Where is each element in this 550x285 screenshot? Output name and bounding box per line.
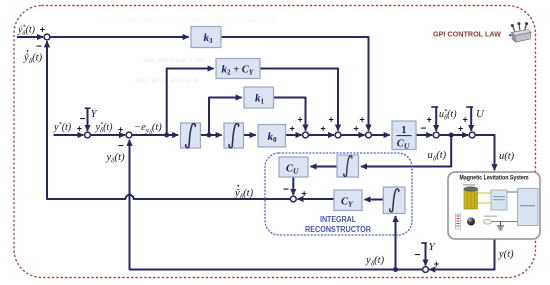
box right face	[515, 32, 531, 42]
svg-text:+: +	[463, 115, 468, 125]
tick: u*d source top	[431, 106, 438, 108]
ground symbol	[500, 222, 502, 227]
block CY	[334, 190, 362, 211]
svg-text:+: +	[298, 115, 303, 125]
wire: A3 to 1/CU block	[372, 134, 390, 136]
wire current control to controller	[507, 191, 518, 193]
svg-text:INTEGRAL: INTEGRAL	[320, 215, 356, 224]
junction node before I2	[207, 133, 212, 138]
gain block k2+CY	[216, 59, 260, 79]
svg-text:−: −	[80, 114, 86, 125]
gain block k3	[191, 27, 221, 48]
svg-text:RECONSTRUCTOR: RECONSTRUCTOR	[305, 225, 371, 234]
wire: Y down into YS	[425, 243, 427, 265]
svg-text:y*(t): y*(t)	[53, 121, 72, 133]
svg-text:+: +	[290, 124, 295, 134]
wire: bottom bus from YS left then up into S2	[130, 140, 423, 270]
summing node A3	[366, 132, 372, 138]
gain block k1	[244, 87, 274, 108]
wire: C2 right and down into plant	[476, 135, 495, 170]
integral sign I1	[186, 124, 196, 148]
wire: u_d tap down and left into top reconstructor integrator	[361, 135, 451, 167]
svg-text:+: +	[360, 115, 365, 125]
svg-text:+: +	[458, 124, 463, 134]
svg-text:+: +	[321, 124, 326, 134]
wire: bottom reconstructor integrator to CY	[365, 199, 384, 201]
svg-text:y*δ(t): y*δ(t)	[95, 121, 114, 135]
wire: u*d down into C1	[435, 107, 437, 131]
summing node YS (bottom)	[423, 267, 429, 273]
wire: y*(t) input into S1	[54, 134, 84, 136]
box front face	[512, 33, 516, 43]
svg-text:+: +	[427, 115, 432, 125]
wire: reference input into S0	[17, 36, 43, 38]
electromagnet coil body	[464, 189, 478, 209]
svg-text:−: −	[415, 250, 421, 261]
current control box	[491, 190, 507, 210]
svg-text:1: 1	[401, 125, 406, 136]
svg-text:ẏ*δ(t): ẏ*δ(t)	[17, 24, 36, 38]
tick: U source top	[466, 106, 473, 108]
wire: C1 to C2	[440, 134, 469, 136]
electromagnet label	[463, 184, 475, 186]
wire: k2+CY output right and down into A2	[260, 69, 338, 131]
wire: S0 to k3	[50, 36, 188, 38]
svg-text:−: −	[283, 185, 289, 196]
integrator block IB (reconstructor bottom)	[383, 187, 405, 214]
svg-text:+: +	[40, 25, 45, 35]
tick: Y source top	[85, 107, 91, 109]
position sensor strip	[456, 214, 461, 229]
wire: y_d tap up into bottom reconstructor integrator	[395, 216, 397, 270]
wire: plant output down, left into bottom summing node YS	[429, 239, 494, 270]
magnetic levitation system plant box	[448, 172, 540, 239]
svg-text:−: −	[118, 141, 124, 152]
summing node C2	[469, 132, 475, 138]
dot above hat (top-left)	[27, 50, 29, 52]
wire: S1 to S2	[91, 134, 125, 136]
tick: Y source bottom	[421, 242, 427, 244]
summing node C1	[433, 132, 439, 138]
levitating ball	[467, 218, 475, 226]
detector wire to controller	[492, 221, 518, 223]
svg-text:−: −	[36, 42, 42, 53]
wire: CY output into node R	[297, 198, 334, 200]
photo detector	[483, 219, 491, 224]
integral sign I2	[229, 124, 239, 148]
integral sign IB	[390, 189, 399, 212]
gain block 1/CU	[392, 121, 416, 150]
wire: A1 to A2	[309, 134, 334, 136]
integral sign IT	[344, 156, 352, 176]
controller box	[518, 189, 539, 226]
svg-text:y(t): y(t)	[498, 249, 514, 260]
wire: k1 output right and down into A1	[274, 98, 306, 131]
box top face	[512, 30, 532, 36]
wire: tap up to k1 block	[209, 98, 242, 136]
svg-text:+: +	[302, 189, 307, 199]
integrator block I2	[224, 123, 244, 148]
integral reconstructor dotted box	[265, 153, 412, 235]
summing node S1	[85, 132, 91, 138]
junction node y_d on bottom bus	[393, 267, 398, 272]
gain block k0	[258, 125, 286, 148]
dot above hat (mid)	[237, 185, 239, 187]
svg-text:ww wwmnw + vw: ww wwmnw + vw	[143, 58, 206, 65]
svg-text:+: +	[77, 124, 82, 134]
integrator block I1	[181, 123, 201, 148]
summing node S0	[44, 34, 50, 40]
svg-text:Magnetic Levitation System: Magnetic Levitation System	[460, 175, 529, 182]
wire: CU down into node R	[292, 177, 294, 195]
svg-text:GPI CONTROL LAW: GPI CONTROL LAW	[433, 29, 501, 38]
summing node R (reconstructor)	[290, 196, 296, 202]
wire: A2 to A3	[341, 134, 364, 136]
svg-text:−: −	[421, 124, 427, 135]
svg-text:ŷδ(t): ŷδ(t)	[234, 188, 254, 201]
wire: I1 to I2	[201, 134, 222, 136]
wire: reconstructed velocity feedback, left along y=199 with hop, up into S0	[47, 41, 290, 199]
wire: U down into C2	[470, 107, 472, 131]
lever sticks	[513, 24, 526, 31]
coil wires to current control	[478, 193, 492, 203]
wire: k0 to summing node A1	[286, 134, 302, 136]
svg-text:ŷδ(t): ŷδ(t)	[23, 53, 43, 66]
summing node S2	[126, 132, 132, 138]
svg-text:u(t): u(t)	[499, 151, 515, 162]
wire: tap at node up to k2+CY block	[167, 69, 214, 136]
svg-text:u*δ(t): u*δ(t)	[439, 108, 457, 122]
svg-text:yδ(t): yδ(t)	[106, 152, 126, 165]
summing node A2	[335, 132, 341, 138]
svg-text:+: +	[329, 115, 334, 125]
wire: top reconstructor integrator to CU	[311, 166, 338, 168]
wire: I2 to k0	[244, 134, 256, 136]
wire: S2 to integrator I1	[132, 134, 178, 136]
coil top cap	[464, 187, 478, 191]
svg-text:yδ(t): yδ(t)	[365, 255, 385, 268]
small knob	[509, 34, 511, 36]
junction node u_d	[449, 133, 454, 138]
photo detector label	[484, 216, 497, 217]
svg-text:+: +	[118, 125, 123, 135]
svg-text:+: +	[354, 124, 359, 134]
integrator block IT (reconstructor top)	[337, 155, 359, 177]
svg-text:U: U	[476, 108, 485, 120]
wire: k3 output right and down into summing node A3	[221, 37, 369, 131]
junction node before I1	[164, 133, 169, 138]
wire: 1/CU output to summing node C1	[416, 134, 432, 136]
summing node A1	[303, 132, 309, 138]
block CU	[279, 157, 308, 177]
svg-text:uδ(t): uδ(t)	[428, 150, 447, 163]
wire: Y down into S1	[87, 108, 89, 131]
icon control panel stamp	[509, 22, 531, 42]
svg-text:+: +	[434, 259, 439, 269]
svg-text:mw nw wm mwn vw nvm wmv mwv wn: mw nw wm mwn vw nvm wmv mwv wn mwnv wm	[100, 19, 277, 25]
